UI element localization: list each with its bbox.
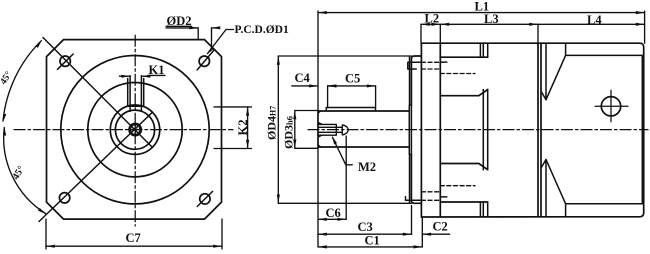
svg-text:C7: C7	[126, 231, 141, 245]
center drill cross	[131, 125, 140, 134]
body right face	[643, 47, 645, 213]
arrow arc1 bottom	[3, 114, 7, 123]
dimension C7 line	[46, 245, 222, 247]
svg-text:L4: L4	[587, 13, 602, 27]
top boss hidden line	[440, 73, 475, 75]
svg-text:C3: C3	[358, 220, 373, 234]
bottom bolt boss outline	[440, 164, 487, 203]
bottom bolt hidden lines	[421, 192, 440, 201]
svg-text:C5: C5	[345, 72, 360, 86]
port crosshair	[595, 90, 628, 121]
svg-text:C2: C2	[433, 220, 448, 234]
svg-text:C6: C6	[326, 206, 341, 220]
dimension L2 line	[421, 23, 440, 25]
ring step lines above boss	[480, 43, 487, 57]
dimension OD2 line right	[212, 27, 220, 29]
arrow OD3 top	[293, 111, 296, 120]
top bolt head	[408, 62, 422, 69]
shaft end chamfer ticks	[318, 111, 321, 147]
C5 extension lines	[328, 86, 376, 107]
M2 leader line	[333, 137, 353, 164]
port circle on adapter	[601, 97, 620, 116]
extension line at shaft end	[317, 11, 319, 247]
M2 hole mouth chamfer	[318, 122, 322, 137]
svg-text:L3: L3	[484, 12, 499, 26]
bolt hole bottom-left	[59, 193, 69, 203]
arrow PCD leader	[207, 47, 214, 55]
label K1 underline	[148, 74, 165, 76]
svg-text:ØD4H7: ØD4H7	[265, 106, 279, 140]
keyway slot outer lines and floor	[128, 79, 144, 107]
bolt hole bottom-right	[200, 194, 210, 204]
arrow C4 right	[328, 84, 337, 87]
bottom boss hidden line	[440, 185, 475, 187]
M2 tapped hole outer thread lines	[318, 124, 336, 135]
dimension K2 line	[247, 107, 249, 149]
pilot boss circle OD4 front view	[61, 56, 209, 204]
dimension C3 line	[318, 233, 412, 235]
svg-text:K2: K2	[236, 120, 250, 136]
dimension L4 line	[538, 23, 645, 25]
arrow M2 leader	[332, 136, 337, 145]
arrow C4 left	[309, 84, 318, 87]
OD4 extension lines	[278, 56, 411, 203]
top bolt tick in boss	[440, 61, 447, 63]
45 degree arc lower-left	[4, 128, 46, 214]
arrow L1 right	[636, 11, 645, 14]
adapter bore shoulder	[566, 43, 643, 217]
front flange square outline with chamfered corners	[47, 40, 222, 220]
dimension C1 line	[318, 246, 422, 248]
arrow arc2 top	[3, 127, 6, 136]
M2 tap drill lines	[318, 127, 342, 132]
arrow OD2 right	[212, 26, 221, 29]
body top edge	[421, 43, 643, 47]
arrow C6 right	[337, 218, 346, 221]
arrow C7 right	[213, 245, 222, 248]
adapter inner step	[541, 43, 546, 217]
output shaft outline	[318, 111, 409, 147]
front horizontal centerline	[14, 129, 233, 131]
dimension K1 line right	[141, 75, 150, 77]
svg-text:ØD3h6: ØD3h6	[282, 116, 296, 149]
arrow K2 top	[246, 107, 249, 116]
arrow OD4 bottom	[277, 195, 280, 204]
ring step lines below boss	[480, 202, 487, 217]
bottom bolt tick in boss	[440, 196, 447, 198]
svg-text:P.C.D.ØD1: P.C.D.ØD1	[235, 24, 289, 36]
dimension C4 line left	[292, 85, 318, 87]
dimension C5 line	[328, 85, 376, 87]
svg-text:L2: L2	[425, 11, 440, 25]
K2 extension lines	[214, 107, 252, 149]
bottom bolt head	[406, 197, 422, 201]
top bolt hidden lines	[421, 62, 440, 69]
top bolt boss outline	[440, 57, 487, 95]
arrow C1 left	[318, 245, 327, 248]
arrow L2 left	[421, 23, 430, 26]
collar ring at flange face	[409, 57, 411, 204]
dimension OD3 line	[294, 111, 296, 149]
keyway slot inner lines	[130, 76, 141, 112]
P.C.D. leader line	[208, 30, 234, 54]
dimension C2 line	[422, 233, 449, 235]
svg-text:C1: C1	[365, 234, 380, 248]
arrow C5 right	[367, 84, 376, 87]
C6 right extension	[345, 136, 347, 219]
dimension K1 line left	[120, 75, 131, 77]
arrow C7 left	[46, 245, 55, 248]
slash mark top-right hole	[197, 49, 214, 70]
M2 drill tip	[342, 125, 348, 135]
key on shaft	[326, 108, 375, 111]
arrow C3 left	[318, 233, 327, 236]
arrow K1 left	[121, 75, 130, 78]
C7 extension lines	[46, 219, 222, 249]
pilot boss front face	[411, 56, 421, 203]
L2 L3 extension ticks	[421, 24, 538, 43]
bolt hole top-right	[199, 56, 209, 66]
OD3 extension lines	[295, 111, 318, 149]
dimension C6 line	[318, 218, 346, 220]
diagonal line BL-center	[39, 112, 153, 221]
collar circle	[110, 105, 159, 154]
shaft circle OD3	[115, 110, 154, 149]
arrow C2 left	[422, 233, 431, 236]
arrow OD3 bottom	[293, 140, 296, 149]
svg-text:M2: M2	[358, 160, 376, 174]
arrow L3 right	[529, 23, 538, 26]
arrow arc1 top	[36, 40, 43, 48]
arrow C6 left	[318, 218, 327, 221]
adapter bell-mouth diagonals	[546, 55, 566, 203]
arrow K2 bottom	[246, 140, 249, 149]
arrow C3 right	[403, 233, 412, 236]
M2 threaded hole ring	[130, 124, 141, 135]
front vertical centerline	[134, 35, 136, 226]
svg-text:45°: 45°	[10, 164, 27, 182]
arrow C5 left	[328, 84, 337, 87]
arrow OD4 top	[277, 56, 280, 65]
arrow C1 right	[414, 245, 423, 248]
diagonal line TL-center	[43, 38, 153, 148]
arrow L3 left	[440, 23, 449, 26]
slash mark top-left hole	[58, 54, 74, 69]
arrow arc2 bottom	[38, 208, 46, 214]
slash mark bottom-right hole	[197, 191, 212, 206]
svg-text:C4: C4	[295, 71, 311, 85]
L1 right extension	[644, 11, 646, 43]
ring step lines mid	[483, 90, 487, 170]
motor adapter joint lines	[538, 43, 541, 217]
side horizontal centerline	[308, 129, 648, 131]
front face step circle	[88, 83, 182, 177]
flange plate faces	[421, 43, 440, 217]
arrow L2 right	[432, 23, 441, 26]
label OD2 underline	[166, 25, 191, 27]
dimension OD4 line	[277, 56, 279, 203]
45 degree arc upper-left	[3, 41, 41, 121]
C2 C3 extension lines	[412, 206, 423, 247]
bolt hole top-left	[60, 56, 70, 66]
dimension L1 line	[318, 12, 645, 14]
arrow L1 left	[318, 11, 327, 14]
arrow K1 right	[141, 75, 150, 78]
dimension L3 line	[440, 23, 538, 25]
arrow OD2 left	[189, 26, 198, 29]
arrow L4 right	[636, 23, 645, 26]
dimension C4 line right	[328, 85, 335, 87]
dimension OD2 line left	[166, 27, 198, 29]
body bottom edge	[421, 213, 643, 217]
OD2 extension lines	[198, 28, 211, 48]
